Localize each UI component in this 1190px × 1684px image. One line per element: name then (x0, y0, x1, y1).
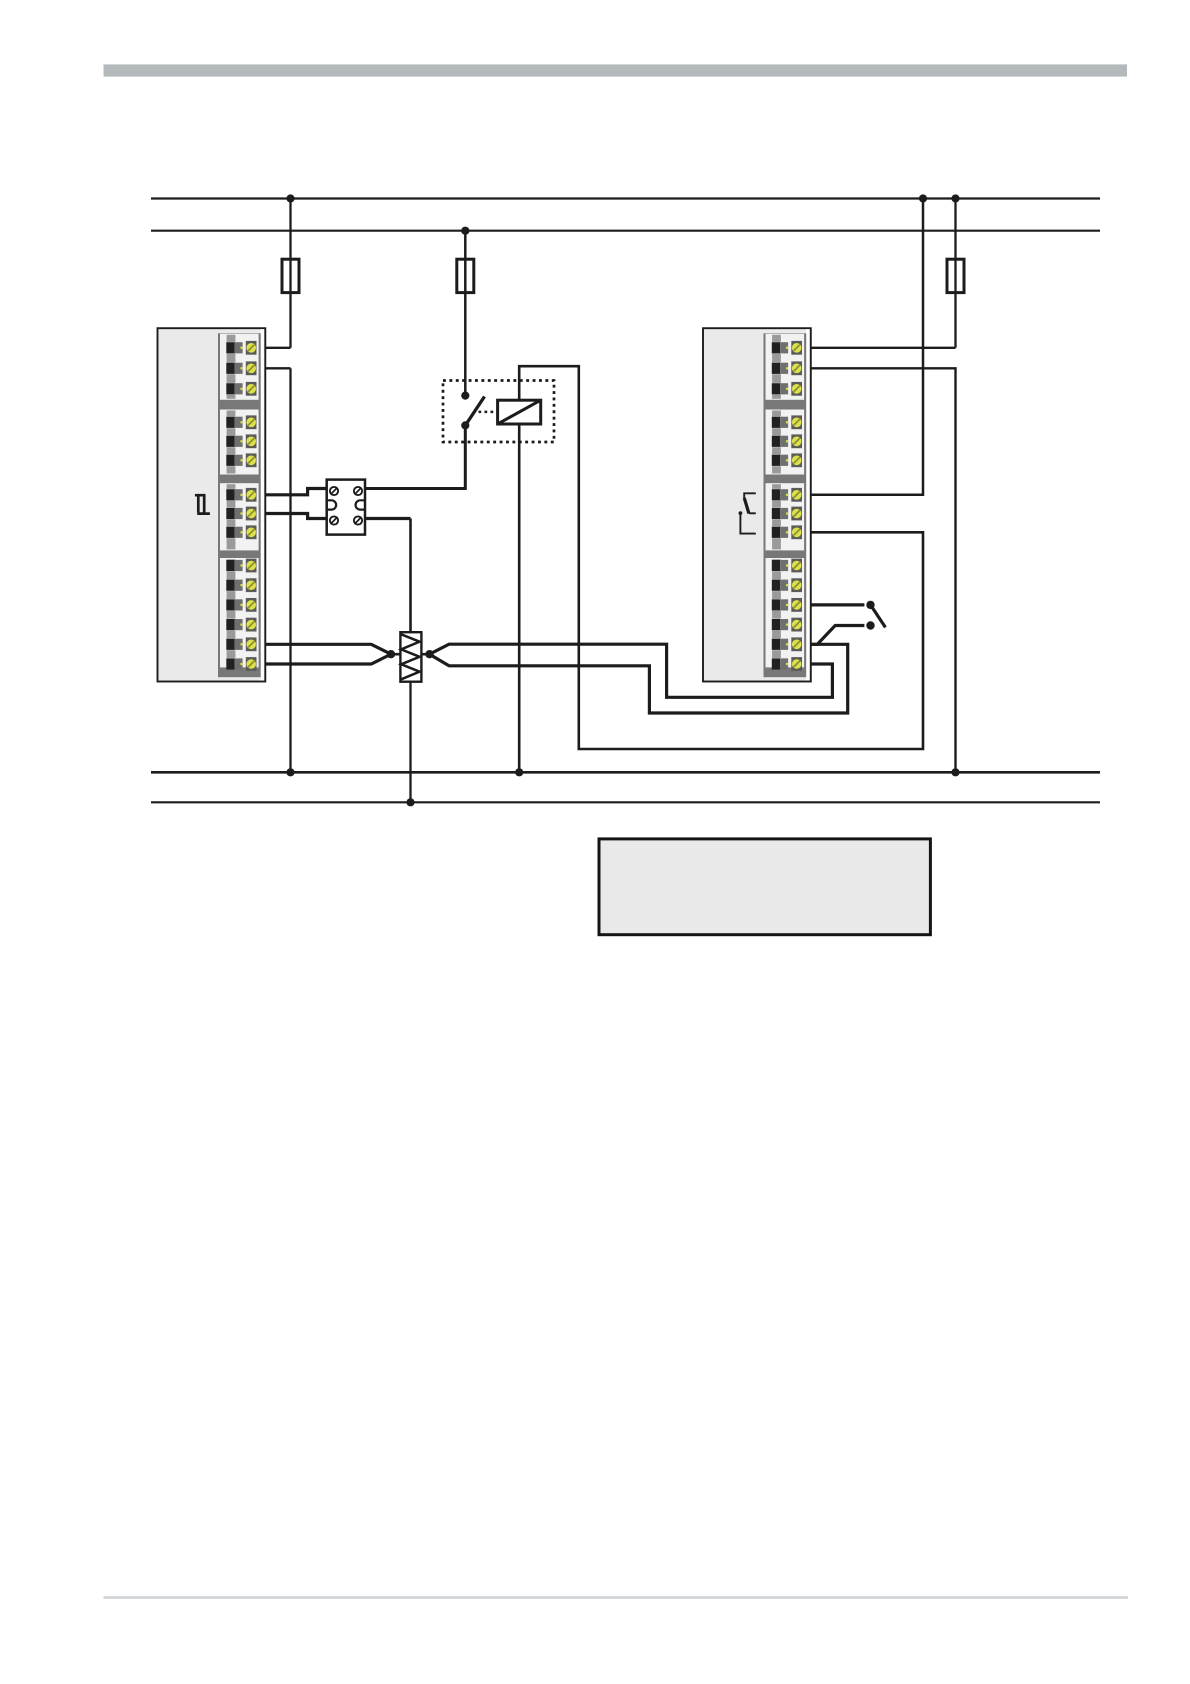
bus line L4 (151, 801, 1100, 803)
door switch upper node (866, 601, 874, 609)
relay K1 contact top node (461, 392, 469, 400)
relay K1 contact blade (465, 397, 484, 426)
wire: X1 terminal 7 to connector K2 (254, 489, 327, 495)
X1 terminal 1.3 (226, 382, 256, 396)
junction L3-a (286, 768, 294, 776)
wire: L1 junction through fuse F3 to X2 terminal 1 (954, 199, 956, 348)
junction L1-F1 (286, 194, 294, 202)
header bar (104, 64, 1128, 76)
X2 terminal 4.6 (772, 657, 802, 671)
junction: twisted pair right node (425, 650, 433, 658)
fuse F3 (947, 259, 964, 292)
wire: X1 terminal 2 stub (254, 367, 291, 369)
X2 terminal 3.3 (772, 525, 802, 539)
X1 terminal group 4 (220, 558, 259, 667)
X2 terminal 4.2 (772, 578, 802, 592)
X1 terminal 2.3 (226, 453, 256, 467)
wire: L1 junction to fuse F1 to X1 terminal 1 (289, 199, 291, 348)
wire: X1 terminal 1 stub (254, 347, 291, 349)
X1 terminal 2.2 (226, 434, 256, 448)
bus line L3 (151, 771, 1100, 774)
X1 terminal 1.1 (226, 341, 256, 355)
X2 terminal 3.1 (772, 488, 802, 502)
X2 terminal 1.2 (772, 361, 802, 375)
X1 terminal 4.3 (226, 598, 256, 612)
wire: L1 junction down to X2 terminal 7 (810, 199, 924, 495)
X1 terminal group 2 (220, 410, 259, 475)
door switch blade (871, 605, 886, 628)
X1 terminal 3.3 (226, 525, 256, 539)
wire: resistor R1 down to L4 (409, 682, 411, 803)
bus line L2 (151, 230, 1100, 232)
wire: X2 terminal 2 right and down to L3 (810, 368, 956, 772)
wire: L2 junction down through fuse F2 to relay contact (464, 231, 467, 396)
connector block K2 (327, 480, 365, 535)
wire: relay coil top to X2 terminal 9 (519, 366, 923, 749)
wire: X1 terminal 14 twisted pair upper (254, 644, 391, 654)
X1 terminal 4.1 (226, 559, 256, 573)
wire: twisted pair to X2 terminal 14 (outer U) (430, 644, 848, 713)
bus line L1 (151, 197, 1100, 199)
relay K1 contact bottom node (461, 421, 469, 429)
wire: X1 terminal 15 twisted pair lower (254, 654, 391, 664)
X1 terminal 4.2 (226, 578, 256, 592)
fuse F1 (282, 259, 299, 292)
wire: relay contact bottom to connector K2 (365, 425, 465, 488)
X2 terminal 4.1 (772, 559, 802, 573)
footer rule (104, 1596, 1129, 1599)
wire: X1 terminal 2 down to L3 (289, 368, 291, 772)
wire: relay coil bottom down to L3 (518, 424, 521, 772)
junction L3-b (515, 768, 523, 776)
X1 terminal group 3 (220, 483, 259, 550)
label box (599, 839, 930, 935)
junction L4-a (406, 798, 414, 806)
X2 terminal 2.3 (772, 453, 802, 467)
X2 terminal group 4 (766, 558, 805, 667)
X2 terminal 3.2 (772, 507, 802, 521)
wire: X2 terminal 12 to door switch (805, 603, 864, 606)
X1 terminal 4.5 (226, 637, 256, 651)
X1 terminal 4.4 (226, 618, 256, 632)
terminal block X1 body (158, 328, 266, 681)
X2 terminal 4.5 (772, 637, 802, 651)
relay K1 dashed enclosure (443, 381, 554, 443)
junction L1-a (919, 194, 927, 202)
relay K1 coil (498, 400, 541, 424)
X2 terminal 2.1 (772, 415, 802, 429)
relay K1 actuator dotted link (479, 411, 498, 414)
X1 terminal 3.2 (226, 507, 256, 521)
X2 terminal 1.1 (772, 341, 802, 355)
junction L2-F2 (461, 227, 469, 235)
wire: twisted pair to X2 terminal 15 (inner U) (430, 644, 833, 697)
junction: twisted pair left node (387, 650, 395, 658)
door switch lower node (866, 621, 874, 629)
X2 terminal 4.4 (772, 618, 802, 632)
wire: X2 terminal 1 stub (810, 347, 956, 349)
X2 terminal 1.3 (772, 382, 802, 396)
X1 terminal group 1 (220, 334, 259, 400)
junction L1-F3 (951, 194, 959, 202)
wire: door switch lower node to X2 terminal 14 (805, 626, 864, 645)
X2 terminal group 2 (766, 410, 805, 475)
fuse F2 (457, 259, 474, 292)
X1 terminal 1.2 (226, 361, 256, 375)
wire: X1 terminal 8 to connector K2 (254, 514, 327, 519)
junction L3-c (951, 768, 959, 776)
X2 terminal 4.3 (772, 598, 802, 612)
X1 terminal 4.6 (226, 657, 256, 671)
wire: connector K2 to terminating resistor R1 (365, 517, 411, 520)
X1 pulse symbol (195, 494, 210, 514)
X1 terminal 2.1 (226, 415, 256, 429)
terminating resistor R1 (400, 632, 421, 682)
terminal block X2 body (703, 328, 811, 681)
X2 terminal 2.2 (772, 434, 802, 448)
X1 terminal 3.1 (226, 488, 256, 502)
X2 contact symbol (739, 493, 756, 533)
X2 terminal group 3 (766, 483, 805, 550)
X2 terminal group 1 (766, 334, 805, 400)
